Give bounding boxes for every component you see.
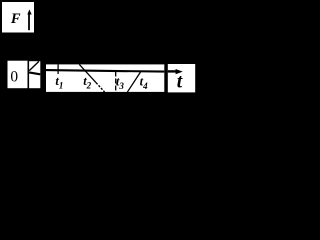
svg-text:t: t <box>177 72 183 93</box>
svg-text:F: F <box>10 11 21 27</box>
svg-text:0: 0 <box>10 68 18 85</box>
